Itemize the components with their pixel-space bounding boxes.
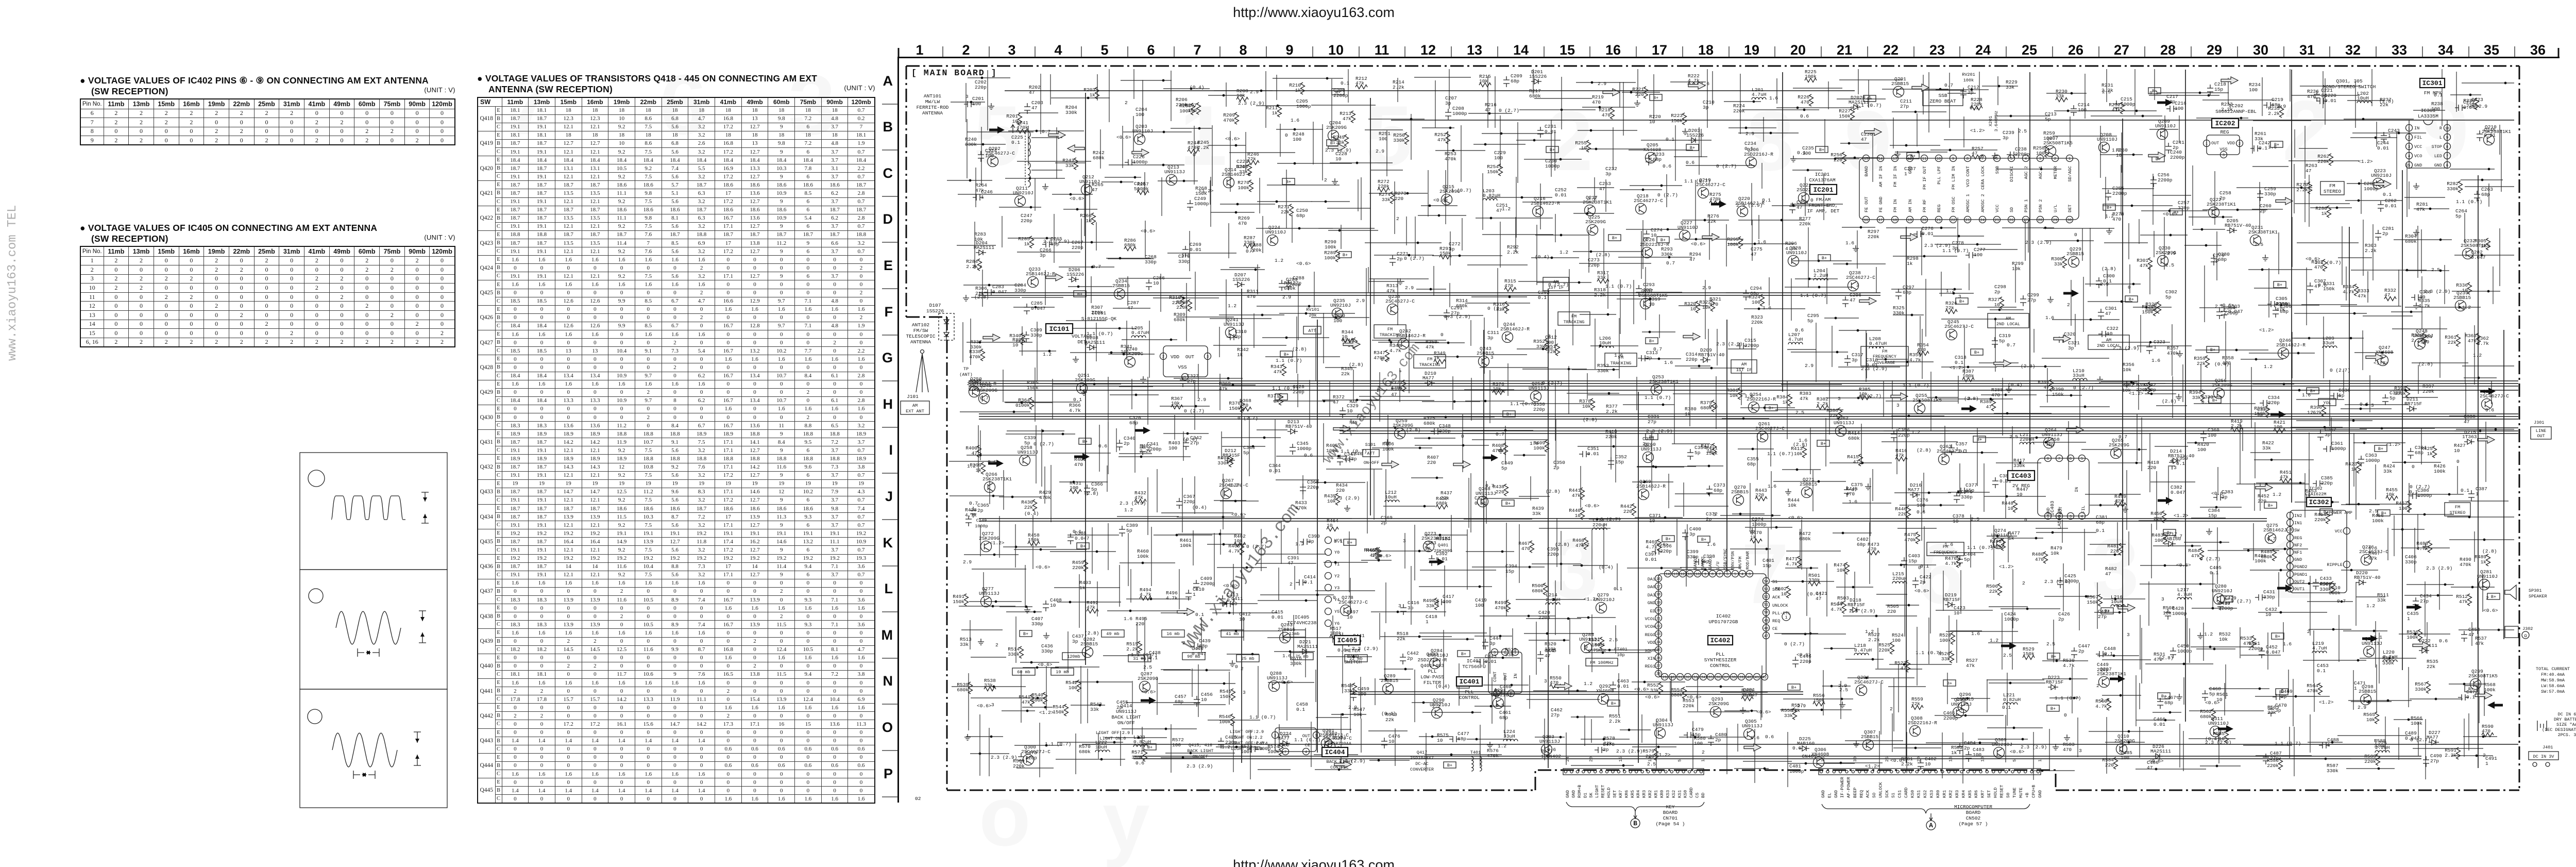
wire	[1327, 208, 1370, 209]
svg-text:3p: 3p	[2275, 708, 2281, 713]
svg-text:10: 10	[2107, 331, 2113, 337]
wire	[1372, 427, 1418, 428]
wire	[1838, 366, 1900, 368]
ground	[2413, 183, 2419, 189]
svg-text:Y6: Y6	[1334, 621, 1340, 626]
svg-text:47: 47	[2464, 419, 2469, 425]
svg-text:2.9: 2.9	[2479, 104, 2487, 109]
svg-text:KR0: KR0	[1659, 790, 1665, 798]
svg-text:ATT: ATT	[1308, 328, 1316, 334]
svg-text:470k: 470k	[1295, 505, 1307, 511]
svg-text:KS3: KS3	[1929, 790, 1935, 798]
resistor R395	[2266, 406, 2270, 418]
svg-text:4.7k: 4.7k	[2063, 663, 2075, 669]
wire	[1003, 470, 1004, 510]
wire	[1837, 98, 1886, 99]
wire	[2304, 126, 2306, 179]
ruler right end tick	[2558, 48, 2560, 58]
junction	[1046, 237, 1048, 240]
resistor R203	[1095, 87, 1099, 99]
junction	[1110, 352, 1113, 354]
svg-text:VCO CONT: VCO CONT	[1965, 166, 1971, 187]
svg-text:680k: 680k	[1124, 242, 1136, 248]
junction	[2150, 393, 2153, 395]
resistor R308	[1188, 299, 1192, 311]
wire	[2194, 403, 2256, 404]
svg-text:IC402: IC402	[1710, 637, 1730, 644]
wire	[2101, 381, 2138, 382]
svg-text:KR0: KR0	[1936, 790, 1941, 798]
wire	[1626, 229, 1684, 230]
svg-text:22k: 22k	[1385, 717, 1394, 723]
wire	[1896, 429, 1897, 474]
wire	[1925, 279, 1926, 337]
svg-text:150k: 150k	[2087, 599, 2098, 605]
svg-text:220k: 220k	[1072, 565, 1084, 571]
svg-text:F: F	[885, 304, 893, 320]
svg-text:1.2: 1.2	[1222, 744, 1230, 750]
svg-text:13: 13	[1673, 573, 1677, 577]
svg-text:<0.6>: <0.6>	[1278, 679, 1293, 685]
wire	[2402, 397, 2438, 398]
svg-text:2.2k: 2.2k	[2365, 248, 2377, 254]
inductor L212	[1385, 500, 1399, 502]
junction	[982, 143, 985, 146]
resistor R257	[1972, 155, 1984, 159]
svg-text:0.6: 0.6	[1098, 443, 1107, 449]
svg-text:34: 34	[2438, 42, 2453, 58]
svg-text:2: 2	[1125, 100, 1128, 106]
wire	[1470, 320, 1471, 346]
svg-text:0.6: 0.6	[2485, 407, 2494, 413]
svg-text:1k: 1k	[1272, 110, 1278, 116]
junction	[1704, 219, 1706, 222]
B+ node	[2170, 209, 2182, 215]
wire	[2405, 307, 2481, 308]
svg-text:FE OUT: FE OUT	[1864, 196, 1869, 212]
svg-text:2200p: 2200p	[2015, 152, 2030, 157]
svg-text:5p: 5p	[1126, 528, 1132, 533]
svg-text:1.1 (0.7): 1.1 (0.7)	[1605, 284, 1632, 289]
grid tick	[1219, 46, 1221, 57]
wire	[1577, 187, 1614, 188]
svg-text:FM IF OUT: FM IF OUT	[1922, 166, 1927, 190]
junction	[1120, 181, 1123, 184]
wire	[2360, 428, 2435, 429]
svg-text:S80822ANNP-EBL: S80822ANNP-EBL	[2215, 109, 2257, 114]
signal arrow	[2276, 197, 2293, 205]
diode D203	[1688, 138, 1699, 143]
svg-text:4: 4	[1496, 692, 1498, 696]
junction	[1484, 400, 1487, 403]
svg-text:10k: 10k	[2219, 637, 2228, 642]
svg-text:REQ: REQ	[1772, 619, 1780, 624]
wire	[1997, 115, 2050, 116]
svg-text:IC202: IC202	[2215, 120, 2235, 127]
wire	[2299, 148, 2328, 149]
wire	[1782, 469, 1821, 470]
wire	[1828, 81, 1829, 109]
junction	[1818, 260, 1820, 262]
svg-text:0.1: 0.1	[2096, 528, 2105, 533]
junction	[1453, 401, 1456, 403]
junction	[1456, 356, 1459, 358]
svg-text:100: 100	[1443, 599, 1451, 605]
svg-text:KS3: KS3	[1665, 790, 1670, 798]
svg-text:330k: 330k	[1290, 661, 1302, 666]
svg-text:5: 5	[1510, 692, 1512, 696]
svg-text:10: 10	[1649, 302, 1655, 307]
svg-text:1.2: 1.2	[1295, 541, 1304, 547]
svg-text:1.1 (0.7): 1.1 (0.7)	[1942, 248, 1969, 254]
wire	[2028, 220, 2029, 253]
svg-text:0.1: 0.1	[2259, 145, 2267, 151]
svg-text:0.1: 0.1	[1304, 579, 1313, 585]
svg-text:2SBB15: 2SBB15	[1800, 481, 1818, 487]
svg-text:68p: 68p	[1747, 461, 1756, 467]
wire	[2139, 219, 2140, 244]
junction	[2136, 110, 2138, 112]
svg-text:(0.4): (0.4)	[1535, 254, 1550, 260]
wire	[1414, 438, 1455, 439]
junction	[988, 284, 991, 287]
B+ node	[1503, 411, 1515, 417]
svg-text:LA3335M: LA3335M	[2418, 113, 2438, 119]
svg-text:IF-POWER: IF-POWER	[1840, 777, 1845, 798]
ground	[1397, 278, 1403, 285]
svg-text:4.7uH: 4.7uH	[1788, 337, 1803, 342]
svg-text:SSB: SSB	[1938, 93, 1947, 98]
svg-text:22k: 22k	[2427, 664, 2435, 670]
signal arrow	[1132, 149, 1149, 156]
svg-text:SW: SW	[2294, 528, 2300, 533]
wire	[1245, 132, 1246, 172]
signal arrow	[1865, 128, 1882, 136]
wire	[1309, 380, 1310, 425]
wire	[1174, 378, 1243, 379]
svg-text:47: 47	[2105, 311, 2111, 316]
wire	[1857, 230, 1858, 269]
wire	[2376, 122, 2377, 147]
wire	[2071, 280, 2072, 326]
svg-text:0 (2.7): 0 (2.7)	[1184, 408, 1205, 414]
diode D207	[1234, 282, 1245, 287]
svg-text:2SD2216J-R: 2SD2216J-R	[1417, 657, 1447, 663]
svg-text:100k: 100k	[2411, 721, 2422, 726]
svg-text:1000p: 1000p	[2364, 186, 2379, 192]
junction	[1560, 234, 1563, 237]
svg-text:MIN: MIN	[1349, 420, 1357, 425]
wire	[1537, 282, 1591, 283]
junction	[1070, 193, 1072, 196]
svg-text:22k: 22k	[1707, 219, 1716, 224]
svg-text:150k: 150k	[1487, 169, 1499, 175]
junction	[2478, 377, 2480, 379]
svg-text:1: 1	[2408, 127, 2410, 131]
junction	[1182, 297, 1185, 299]
svg-text:68p: 68p	[1511, 78, 1519, 84]
svg-text:10k: 10k	[1236, 93, 1245, 98]
wire	[1810, 427, 1811, 474]
wire	[2002, 378, 2003, 436]
svg-text:0.1: 0.1	[1073, 397, 1082, 403]
junction	[1521, 196, 1523, 199]
wire	[967, 342, 1032, 343]
svg-text:UN9210J: UN9210J	[2371, 173, 2392, 178]
svg-text:47k: 47k	[1219, 386, 1228, 392]
svg-text:68p: 68p	[1458, 736, 1466, 742]
wire	[947, 180, 992, 181]
wire	[1868, 80, 1869, 107]
transistor Q255	[1914, 403, 1925, 414]
resistor R346	[1353, 338, 1358, 349]
svg-text:8: 8	[2446, 145, 2448, 149]
wire	[1944, 139, 2001, 140]
svg-text:0.047: 0.047	[1075, 536, 1090, 541]
svg-text:3: 3	[2223, 154, 2225, 158]
wire	[1775, 409, 1843, 410]
wire	[1100, 129, 1101, 169]
svg-text:1k: 1k	[1079, 585, 1086, 591]
ground	[2006, 386, 2012, 392]
svg-text:BACK LIGHT: BACK LIGHT	[1111, 714, 1141, 720]
svg-text:GND: GND	[2038, 790, 2043, 798]
wire	[1637, 466, 1684, 468]
svg-text:OUT2: OUT2	[2294, 579, 2304, 585]
svg-text:47k: 47k	[1572, 493, 1581, 498]
resistor R334	[2354, 284, 2359, 296]
wire	[2200, 365, 2201, 392]
svg-text:47k: 47k	[2280, 474, 2289, 480]
svg-text:68p: 68p	[1653, 157, 1662, 162]
svg-text:IN1: IN1	[2294, 521, 2302, 526]
svg-text:34: 34	[1701, 676, 1705, 680]
svg-text:12: 12	[1908, 157, 1912, 161]
ground	[1140, 376, 1146, 382]
wire	[1921, 228, 1922, 275]
svg-text:RV201: RV201	[1962, 72, 1975, 77]
svg-text:10k: 10k	[1837, 568, 1845, 573]
capacitor C364	[2408, 448, 2414, 459]
svg-text:3: 3	[1398, 603, 1401, 609]
svg-text:KR1: KR1	[1942, 790, 1947, 798]
svg-text:0 (2.7): 0 (2.7)	[1487, 306, 1508, 311]
wire	[2488, 184, 2489, 207]
svg-text:1.2: 1.2	[1275, 258, 1283, 263]
svg-text:IN2: IN2	[2294, 513, 2302, 519]
wire	[1415, 342, 1465, 343]
resistor R301	[2148, 258, 2153, 270]
wire	[2172, 324, 2173, 376]
junction	[1091, 266, 1094, 269]
transistor Q263	[1939, 454, 1950, 465]
svg-text:ANTENNA: ANTENNA	[922, 110, 943, 116]
wire	[1044, 466, 1045, 504]
resistor R367	[1171, 405, 1183, 409]
wire	[1108, 377, 1109, 430]
junction	[1462, 444, 1465, 447]
svg-text:GND: GND	[2046, 508, 2051, 515]
wire	[2240, 422, 2241, 484]
svg-text:47: 47	[2147, 765, 2153, 771]
transistor Q224	[1267, 235, 1278, 246]
svg-text:0 (2.7): 0 (2.7)	[1784, 641, 1805, 647]
junction	[1305, 312, 1308, 315]
junction	[2036, 437, 2038, 439]
ground	[1081, 389, 1087, 395]
capacitor C368	[1300, 483, 1306, 494]
resistor R256	[1842, 152, 1846, 164]
svg-text:X401: X401	[1595, 642, 1605, 647]
svg-text:220k: 220k	[1751, 320, 1763, 325]
wire	[2300, 86, 2360, 87]
grid tick	[1497, 46, 1498, 57]
wire	[1675, 365, 1710, 366]
svg-text:DA3: DA3	[1648, 593, 1655, 598]
wire	[2121, 165, 2122, 215]
wire	[1084, 183, 1085, 236]
transistor Q216	[1533, 206, 1544, 217]
svg-text:3: 3	[1749, 573, 1751, 577]
wire	[1002, 216, 1003, 247]
resistor R207	[1197, 103, 1201, 114]
junction	[2459, 306, 2461, 309]
wire	[1465, 303, 1530, 304]
junction	[2010, 115, 2012, 118]
svg-text:5p: 5p	[1694, 450, 1701, 456]
ground	[2413, 229, 2419, 236]
svg-text:FRONT-END,: FRONT-END,	[1808, 203, 1838, 208]
junction	[1835, 317, 1837, 320]
wire	[1587, 373, 1588, 399]
svg-text:20: 20	[1790, 42, 1806, 58]
wire	[2347, 100, 2383, 101]
wire	[1323, 313, 1324, 363]
junction	[1919, 400, 1921, 403]
svg-text:470: 470	[1991, 392, 2000, 398]
junction	[1140, 456, 1143, 458]
svg-text:DET: DET	[1077, 339, 1086, 345]
svg-text:1.2: 1.2	[1946, 288, 1955, 294]
svg-text:0.1: 0.1	[2104, 651, 2113, 657]
svg-text:2.5: 2.5	[1496, 703, 1504, 708]
svg-text:UN9110J: UN9110J	[2208, 721, 2229, 726]
svg-text:FIL: FIL	[2081, 506, 2086, 513]
svg-text:15p: 15p	[1615, 459, 1624, 465]
svg-text:5: 5	[1315, 734, 1317, 738]
capacitor C294	[1743, 290, 1749, 301]
junction	[1753, 101, 1755, 103]
svg-text:47k: 47k	[1426, 344, 1434, 350]
svg-text:220p: 220p	[1072, 245, 1083, 251]
resistor R352	[1545, 339, 1549, 351]
svg-text:UN9113J: UN9113J	[1742, 723, 1762, 729]
junction	[1560, 158, 1562, 161]
svg-text:1k: 1k	[2427, 451, 2433, 457]
wire	[1221, 431, 1222, 459]
junction	[1021, 402, 1023, 404]
wire	[2456, 72, 2457, 112]
wire	[1394, 181, 1395, 234]
wire	[2251, 367, 2252, 428]
svg-text:10k: 10k	[1582, 404, 1591, 409]
transistor Q259	[1395, 428, 1405, 439]
wire	[1534, 98, 1592, 99]
svg-text:S101: S101	[1365, 442, 1376, 447]
signal arrow	[2148, 152, 2165, 159]
wire	[1738, 132, 1799, 134]
svg-text:29: 29	[2207, 42, 2222, 58]
svg-text:30: 30	[2067, 219, 2072, 223]
wire	[1007, 430, 1064, 431]
svg-text:KR7: KR7	[1980, 790, 1986, 798]
wire	[2289, 160, 2359, 161]
B+ node	[1650, 94, 1662, 101]
grid tick	[2468, 46, 2469, 57]
wire	[1113, 308, 1150, 309]
junction	[2045, 441, 2047, 444]
svg-text:17: 17	[1878, 219, 1883, 223]
svg-text:220p: 220p	[1588, 262, 1600, 268]
wire	[1374, 279, 1375, 304]
wire	[2454, 430, 2514, 431]
svg-text:10: 10	[1344, 457, 1350, 462]
wire	[1866, 330, 1867, 382]
svg-text:33k: 33k	[984, 682, 993, 688]
wire	[1893, 256, 1957, 257]
junction	[1923, 255, 1926, 258]
junction	[1667, 228, 1669, 231]
wire	[1359, 396, 1430, 397]
junction	[1586, 212, 1589, 215]
wire	[1790, 204, 1843, 205]
svg-text:0.1: 0.1	[2461, 488, 2469, 493]
svg-text:MUSIC: MUSIC	[1436, 536, 1451, 542]
svg-text:220: 220	[1336, 488, 1345, 493]
wire	[2242, 427, 2243, 451]
wire	[2345, 200, 2402, 201]
wire	[1573, 251, 1643, 252]
wire	[1641, 140, 1711, 141]
wire	[1160, 274, 1161, 312]
junction	[1999, 362, 2002, 364]
svg-text:0.47uH: 0.47uH	[1854, 647, 1872, 653]
wire	[999, 496, 1041, 497]
svg-text:<1.2>: <1.2>	[1656, 752, 1671, 758]
svg-text:2: 2	[1241, 666, 1244, 672]
svg-text:10: 10	[1707, 448, 1713, 454]
svg-text:220k: 220k	[2317, 159, 2329, 164]
svg-text:KS0: KS0	[1683, 790, 1688, 798]
svg-text:16: 16	[1656, 577, 1660, 581]
wire	[2292, 217, 2293, 267]
wire	[1666, 174, 1667, 207]
wire	[2254, 459, 2314, 460]
svg-text:10: 10	[1575, 513, 1581, 519]
wire	[1958, 376, 1959, 404]
svg-text:VCC: VCC	[1995, 205, 2000, 212]
svg-text:330k: 330k	[2382, 660, 2394, 666]
svg-text:1000p: 1000p	[2417, 493, 2432, 498]
svg-text:25: 25	[1885, 757, 1890, 762]
svg-text:2.3 (2.9): 2.3 (2.9)	[1861, 366, 1887, 372]
svg-text:220p: 220p	[2268, 400, 2280, 406]
svg-text:0.01: 0.01	[969, 386, 979, 391]
junction	[1436, 477, 1438, 479]
transistor Q261	[1757, 431, 1768, 442]
wire	[1265, 71, 1266, 128]
svg-text:10: 10	[1239, 616, 1245, 622]
